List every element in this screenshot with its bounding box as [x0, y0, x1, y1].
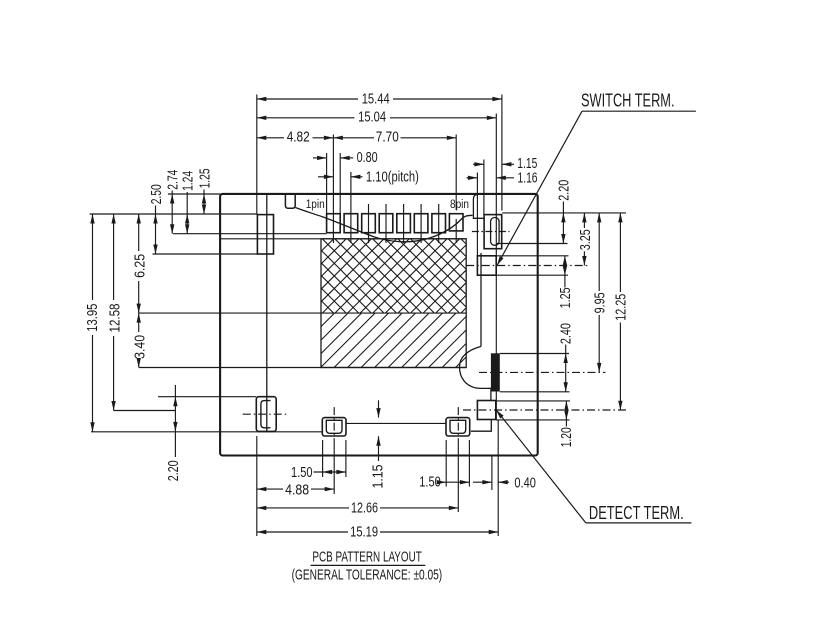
svg-text:2.50: 2.50 [149, 184, 165, 204]
pad4 center tick [385, 204, 387, 243]
detect pad centerline [463, 409, 627, 411]
contact pad 7 [432, 214, 446, 233]
dim 4.88 [257, 483, 334, 499]
shell step line y=214 [90, 213, 258, 215]
contact pad 6 [414, 214, 428, 233]
dim 7.70 [333, 130, 456, 146]
pin1 label [306, 199, 325, 211]
mount pad A (bottom left) [256, 397, 276, 432]
ext line 2.20 left top [158, 396, 256, 398]
dim 1.25 left [197, 168, 213, 214]
dim 3.25 [578, 213, 594, 266]
ext bottom x=446.2 [445, 440, 447, 487]
mount pad B (bottom center-left) [322, 418, 346, 436]
ext right y=255.8 [496, 255, 568, 257]
pad2 center extension [350, 172, 352, 243]
svg-text:12.66: 12.66 [351, 501, 378, 517]
ext bottom x=469.4 [468, 440, 470, 487]
svg-text:2.20: 2.20 [166, 460, 182, 481]
switch pad centerline [466, 265, 588, 267]
pad3 center tick [368, 204, 370, 243]
shell bottom edge between pads [346, 422, 446, 424]
svg-text:1.10(pitch): 1.10(pitch) [366, 170, 419, 186]
ext right y=400.9 [496, 400, 570, 402]
ext bottom x=458.3 [457, 445, 459, 512]
detect term label [589, 503, 684, 523]
shell right inner edge [480, 253, 482, 346]
svg-text:3.25: 3.25 [578, 229, 594, 250]
detect term leader [496, 410, 691, 523]
dim 2.74 [166, 170, 182, 234]
ext right y=391.8 [500, 391, 570, 393]
dim 1.15 top [473, 156, 537, 172]
svg-text:1pin: 1pin [306, 199, 325, 211]
switch terminal pad [477, 256, 496, 275]
svg-text:1.16: 1.16 [518, 171, 538, 187]
svg-text:1.24: 1.24 [181, 171, 197, 191]
mount pad A centerline [243, 413, 287, 415]
shell scallop curve [295, 208, 472, 242]
svg-text:15.04: 15.04 [358, 110, 386, 126]
ext right y=243.5 [496, 243, 567, 245]
mount pad C centerline [457, 407, 459, 445]
detect contour curve [460, 346, 491, 388]
contact pad 1 [327, 214, 341, 233]
dim 15.19 [257, 525, 498, 541]
title underline [311, 564, 426, 566]
shield solder bar [491, 353, 500, 391]
contact pad 8 [449, 214, 463, 231]
pad1 right edge extension [339, 153, 341, 214]
ext right y=353.5 [500, 353, 569, 355]
detect terminal pad [477, 401, 495, 420]
svg-text:1.25: 1.25 [197, 168, 213, 188]
contact pad 5 [397, 214, 411, 233]
ext x=496.3 (15.04) [495, 114, 497, 421]
tolerance note [292, 566, 443, 583]
contact pad 3 [362, 214, 376, 233]
svg-text:PCB PATTERN LAYOUT: PCB PATTERN LAYOUT [312, 549, 421, 566]
ext x=477.4 (1.16) [476, 173, 478, 256]
mount pad C (bottom center-right) [446, 418, 470, 436]
svg-text:9.95: 9.95 [593, 292, 609, 313]
title text [312, 549, 421, 566]
dim 1.15 bottom [371, 400, 387, 488]
ext bottom x=334.2 [333, 445, 335, 494]
pad8 center extension [455, 135, 457, 244]
ext bottom x=345.9 [345, 440, 347, 477]
dim 13.95 [85, 214, 101, 432]
pad7 center tick [438, 204, 440, 243]
contact pad 2 [344, 214, 358, 233]
svg-text:1.20: 1.20 [559, 427, 575, 447]
svg-text:12.25: 12.25 [614, 294, 630, 321]
dim 15.04 [257, 110, 497, 126]
bar centerline [479, 371, 606, 373]
shell left edge [266, 194, 268, 432]
pin8 label [450, 199, 469, 211]
pad1 left edge extension [326, 153, 328, 214]
dim 9.95 [593, 213, 609, 373]
switch term label [581, 91, 675, 111]
dim 0.80 [313, 150, 378, 166]
pad6 center tick [420, 204, 422, 243]
ext line 12.58 bottom [114, 410, 175, 412]
dim 1.10(pitch) [318, 170, 419, 186]
dim 12.66 [257, 501, 459, 517]
shell edge above detect pad [490, 388, 492, 400]
hatch divider line [139, 312, 466, 314]
ext right y=419.9 [496, 419, 570, 421]
ext x=501.9 (15.44) [501, 95, 503, 211]
pad1 center extension [332, 135, 334, 244]
svg-text:15.19: 15.19 [350, 525, 378, 541]
shell edge below detect pad [471, 420, 491, 432]
svg-text:SWITCH TERM.: SWITCH TERM. [581, 91, 675, 111]
switch term leader [497, 111, 696, 265]
left mounting pad [257, 215, 273, 254]
svg-text:1.50: 1.50 [291, 465, 313, 481]
cross-hatched card area [247, 239, 561, 368]
svg-text:1.15: 1.15 [371, 465, 387, 489]
svg-text:13.95: 13.95 [85, 304, 101, 332]
dim 1.16 [467, 171, 538, 187]
svg-text:2.40: 2.40 [559, 323, 575, 344]
ext x=256.8 top [256, 95, 258, 215]
svg-text:DETECT TERM.: DETECT TERM. [589, 503, 684, 523]
svg-text:2.74: 2.74 [166, 170, 182, 190]
bottom shell line left [91, 431, 322, 433]
svg-text:(GENERAL TOLERANCE: ±0.05): (GENERAL TOLERANCE: ±0.05) [292, 566, 443, 583]
svg-text:8pin: 8pin [450, 199, 469, 211]
svg-text:6.25: 6.25 [133, 254, 149, 278]
switch contact spring [491, 218, 500, 246]
pin1 corner notch [285, 195, 295, 209]
dim 2.20 left [166, 385, 182, 481]
dim 1.50 right [419, 475, 469, 491]
left pad bottom extension line [153, 253, 258, 255]
svg-text:2.20: 2.20 [557, 180, 573, 201]
dim 1.25 right [558, 256, 574, 309]
dim 2.40 [559, 323, 575, 392]
svg-text:0.80: 0.80 [357, 150, 378, 166]
switch housing centerline [472, 231, 510, 233]
svg-text:4.82: 4.82 [287, 130, 310, 146]
dim 12.58 [108, 214, 124, 411]
ext x=498.2 (0.40 right / 15.19) [497, 420, 499, 536]
dim 4.82 [257, 130, 334, 146]
dim 3.40 [133, 313, 149, 367]
ext right y=275.2 [496, 274, 568, 276]
svg-text:1.25: 1.25 [558, 287, 574, 308]
ext line y=194 left [168, 193, 220, 195]
svg-text:4.88: 4.88 [285, 483, 309, 499]
dim 2.50 [149, 184, 165, 254]
mount pad B centerline [333, 407, 335, 445]
ext bottom x=322.6 [322, 440, 324, 477]
ext x=491.9 (0.40 left) [491, 456, 493, 490]
contact pad 4 [379, 214, 393, 233]
switch contact housing [484, 215, 502, 249]
dim 2.20 right [557, 180, 573, 244]
ext right y=212.9 [502, 212, 626, 214]
dim 1.20 [559, 401, 575, 447]
svg-text:0.40: 0.40 [514, 476, 536, 492]
ext x=483.9 (1.15) [483, 160, 485, 215]
dim 12.25 [614, 213, 630, 410]
svg-text:15.44: 15.44 [362, 92, 390, 108]
dim 1.24 [181, 171, 197, 234]
hatch bottom line [139, 367, 466, 369]
dim 15.44 [257, 92, 502, 108]
dim 1.50 left [291, 465, 346, 481]
switch arm outline [473, 195, 484, 219]
dim 6.25 [133, 214, 149, 313]
card-stop line (hatch top) [221, 238, 467, 240]
body outline (PCB pattern boundary) [220, 194, 538, 456]
svg-text:7.70: 7.70 [376, 130, 399, 146]
pads bottom extension line [173, 233, 326, 235]
pad5 center tick [403, 204, 405, 243]
ext x=256.8 bottom [256, 436, 258, 536]
svg-text:3.40: 3.40 [133, 335, 149, 359]
svg-text:12.58: 12.58 [108, 304, 124, 333]
dim 0.40 [473, 476, 536, 492]
